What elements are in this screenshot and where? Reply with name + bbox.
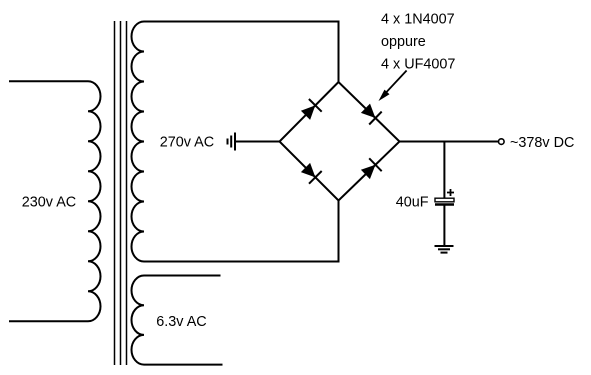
wire 6.3v top lead xyxy=(144,275,221,277)
capacitor C1 40uF (polarized) xyxy=(435,189,454,205)
transformer secondary winding 270v xyxy=(132,22,145,262)
wire ground to bridge left vertex xyxy=(235,141,280,143)
diode D4 (bottom-right) xyxy=(361,158,382,179)
annotation arrow to diode D2 xyxy=(379,71,407,102)
wire 6.3v bottom lead xyxy=(144,364,223,366)
transformer secondary winding 6.3v xyxy=(132,276,145,365)
wire primary top lead xyxy=(9,80,88,82)
ground (270v AC reference, rotated) xyxy=(228,133,236,151)
svg-text:4 x 1N4007: 4 x 1N4007 xyxy=(381,12,455,28)
wire bridge right vertex to output xyxy=(400,141,499,143)
wire secondary top lead to bridge xyxy=(144,22,339,83)
diode D1 (top-left) xyxy=(301,99,322,120)
transformer core xyxy=(115,21,127,365)
wire primary bottom lead xyxy=(9,320,88,322)
svg-text:6.3v AC: 6.3v AC xyxy=(156,314,206,330)
svg-text:4 x UF4007: 4 x UF4007 xyxy=(381,57,455,73)
diode D3 (bottom-left) xyxy=(301,163,322,184)
svg-text:oppure: oppure xyxy=(381,34,426,50)
svg-text:230v AC: 230v AC xyxy=(22,195,76,211)
svg-text:40uF: 40uF xyxy=(396,194,429,210)
bridge diamond wires xyxy=(280,82,400,201)
diode D2 (top-right) xyxy=(361,104,382,125)
wire capacitor to ground xyxy=(443,206,445,247)
node junction to capacitor xyxy=(443,142,445,199)
label 4 x 1N4007 / oppure / 4 x UF4007 xyxy=(381,12,455,73)
output terminal circle xyxy=(499,139,505,145)
transformer primary winding (230v) xyxy=(88,81,101,321)
svg-text:~378v DC: ~378v DC xyxy=(510,135,574,151)
wire secondary bottom lead to bridge xyxy=(144,201,339,262)
svg-text:270v AC: 270v AC xyxy=(160,135,214,151)
ground (below capacitor) xyxy=(435,246,454,253)
